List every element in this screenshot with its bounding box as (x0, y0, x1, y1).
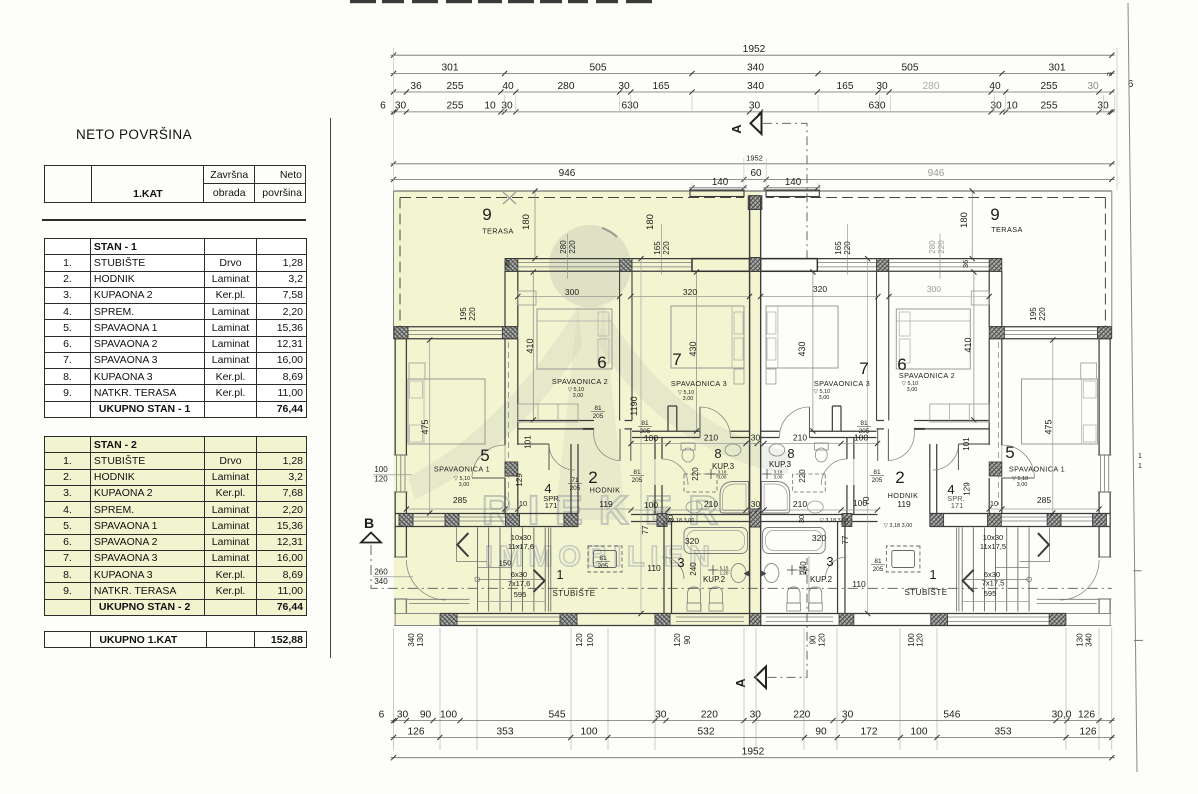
svg-text:205: 205 (859, 428, 870, 435)
svg-text:126: 126 (408, 726, 425, 737)
svg-text:30: 30 (876, 81, 888, 92)
svg-text:3,00: 3,00 (459, 482, 470, 488)
svg-text:475: 475 (420, 419, 430, 434)
parapet bar 140 (690, 190, 744, 197)
svg-text:90: 90 (815, 726, 827, 737)
svg-text:165: 165 (834, 241, 843, 255)
dashed beam line wall A (508, 342, 510, 505)
svg-text:60: 60 (750, 168, 762, 179)
KUP3 washing machine (686, 501, 702, 513)
pier center top (748, 196, 760, 210)
dim line bath bottom left (631, 509, 757, 511)
vertical dim 1190 corridor (640, 259, 642, 614)
KUP2 shower screen line (700, 556, 702, 612)
svg-text:120: 120 (575, 633, 584, 647)
dim line 475 right (1052, 340, 1054, 513)
svg-text:3: 3 (826, 554, 833, 569)
section marker A top (751, 113, 762, 135)
vertical divider line right of tables (330, 118, 331, 658)
svg-text:165: 165 (837, 81, 854, 92)
svg-text:320: 320 (683, 287, 697, 297)
dim line 320 room7 (631, 296, 750, 298)
svg-text:10x30: 10x30 (983, 533, 1003, 542)
svg-text:320: 320 (685, 536, 699, 546)
svg-text:205: 205 (593, 413, 604, 420)
svg-text:172: 172 (861, 726, 878, 737)
left exterior wall (double line, gaps for window+door) (394, 339, 396, 455)
svg-text:946: 946 (928, 168, 945, 179)
pier terrace bottom right (502, 327, 517, 339)
svg-text:30: 30 (797, 515, 806, 523)
svg-text:171: 171 (951, 501, 964, 510)
svg-text:6x30: 6x30 (511, 570, 527, 579)
svg-text:340: 340 (407, 633, 416, 647)
cropped marks at very top edge (350, 0, 376, 3)
svg-text:B: B (364, 515, 374, 531)
svg-text:120: 120 (916, 633, 925, 647)
svg-text:101: 101 (524, 435, 533, 449)
svg-text:353: 353 (497, 726, 514, 737)
svg-text:120: 120 (818, 633, 827, 647)
section marker A bottom (755, 667, 766, 689)
svg-text:▽ 3,18 3,00: ▽ 3,18 3,00 (820, 518, 849, 524)
svg-text:7x17,6: 7x17,6 (508, 579, 531, 588)
svg-text:165: 165 (653, 241, 662, 255)
dimension row 36..255 (391, 91, 1115, 93)
svg-text:30,0: 30,0 (1052, 709, 1072, 720)
svg-text:7x17,5: 7x17,5 (982, 579, 1005, 588)
svg-text:255: 255 (447, 101, 464, 112)
stair-top wall band (395, 513, 578, 515)
svg-text:340: 340 (1085, 633, 1094, 647)
svg-text:100: 100 (644, 500, 658, 510)
svg-text:205: 205 (598, 563, 609, 570)
svg-text:119: 119 (599, 499, 613, 509)
svg-text:▽ 3,18 3,00: ▽ 3,18 3,00 (884, 523, 913, 529)
svg-text:▽ 3,18 3,00: ▽ 3,18 3,00 (666, 518, 695, 524)
pier bath bottom (657, 514, 667, 527)
rooms 6/7 divider wall (619, 271, 621, 420)
KUP3 shower dashed box (684, 474, 717, 492)
svg-text:30: 30 (1097, 101, 1109, 112)
frame line right (1128, 3, 1137, 772)
svg-text:100: 100 (440, 709, 457, 720)
svg-text:545: 545 (549, 709, 566, 720)
svg-text:255: 255 (1041, 101, 1058, 112)
svg-text:165: 165 (653, 81, 670, 92)
svg-text:3: 3 (1107, 72, 1114, 76)
svg-text:1: 1 (1138, 453, 1142, 460)
dimension row total 1952 top (391, 54, 1115, 56)
dimension row 301/505/340/505/301 (391, 73, 1115, 75)
svg-text:220: 220 (568, 240, 577, 254)
svg-text:205: 205 (640, 428, 651, 435)
svg-text:946: 946 (559, 168, 576, 179)
svg-text:340: 340 (374, 577, 388, 586)
section line B dash-dot (371, 545, 1112, 588)
svg-text:595: 595 (984, 589, 997, 598)
extension lines from plan to bottom dims (393, 628, 395, 750)
dim line 300 room6 right (889, 296, 989, 298)
SPR top wall + door (518, 443, 549, 445)
svg-text:180: 180 (645, 214, 656, 230)
svg-text:6: 6 (379, 709, 385, 720)
svg-text:129: 129 (515, 473, 524, 487)
dimension row small 1952 (second group) (391, 163, 1115, 165)
KUP2 left wall (663, 522, 665, 614)
svg-text:8: 8 (787, 446, 794, 461)
svg-text:10: 10 (519, 499, 527, 508)
svg-text:TERASA: TERASA (482, 227, 514, 236)
pier rooms 6/7 divider top (620, 259, 632, 272)
svg-text:STUBIŠTE: STUBIŠTE (904, 588, 947, 597)
svg-text:100: 100 (581, 726, 598, 737)
svg-text:KUP.3: KUP.3 (769, 460, 792, 469)
table STAN-1 (44, 238, 307, 418)
svg-text:126: 126 (1078, 709, 1095, 720)
pier stairtop 2 (445, 514, 459, 527)
svg-text:3,00: 3,00 (819, 395, 830, 401)
svg-text:STUBIŠTE: STUBIŠTE (552, 589, 595, 598)
svg-text:101: 101 (962, 437, 971, 451)
svg-text:1: 1 (1138, 463, 1142, 470)
svg-text:11x17,6: 11x17,6 (508, 542, 534, 551)
svg-text:595: 595 (514, 590, 527, 599)
nightstand room5 (409, 363, 425, 379)
svg-text:A: A (729, 124, 744, 134)
pier stairtop 4 (564, 514, 578, 527)
pier terrace bottom left (394, 327, 408, 339)
svg-text:3,00: 3,00 (1017, 482, 1028, 488)
svg-text:130: 130 (416, 633, 425, 647)
pier wall A top (505, 259, 518, 272)
pier center mid (750, 509, 761, 527)
svg-text:240: 240 (689, 562, 698, 576)
vertical dim 180 terrace (534, 191, 536, 259)
svg-text:1: 1 (929, 567, 936, 582)
bed room 6 (537, 309, 612, 369)
dim line 320 room7 right (761, 296, 878, 298)
entrance door leaf and arc (406, 560, 446, 600)
svg-text:SPAVAONICA 1: SPAVAONICA 1 (434, 465, 490, 474)
svg-text:30: 30 (1087, 81, 1099, 92)
svg-text:30: 30 (750, 709, 762, 720)
svg-text:40: 40 (989, 81, 1001, 92)
KUP2 bidet (709, 603, 723, 611)
svg-text:3,00: 3,00 (774, 475, 783, 480)
svg-text:180: 180 (959, 212, 970, 228)
stair landing lines (457, 560, 487, 562)
svg-text:430: 430 (797, 341, 807, 356)
svg-text:300: 300 (927, 284, 941, 294)
svg-text:220: 220 (793, 709, 810, 720)
bath bottom wall (631, 514, 761, 516)
pier bottom 2 (560, 614, 577, 626)
bottom outer wall (440, 613, 755, 615)
svg-text:77: 77 (641, 525, 650, 534)
KUP3 toilet (681, 443, 695, 450)
svg-text:320: 320 (813, 284, 827, 294)
window band room 7 top (631, 262, 692, 264)
svg-text:1190: 1190 (629, 396, 639, 415)
svg-text:320: 320 (812, 533, 826, 543)
svg-text:301: 301 (1049, 62, 1066, 73)
table UKUPNO 1.KAT (44, 631, 307, 648)
svg-text:30: 30 (751, 499, 761, 509)
stairs right boundary (548, 528, 550, 612)
svg-text:10x30: 10x30 (511, 533, 531, 542)
wall A terrace-side segment (504, 271, 506, 327)
x mark on top edge (503, 192, 516, 204)
svg-text:77: 77 (841, 535, 850, 544)
svg-text:210: 210 (793, 433, 807, 443)
svg-text:9: 9 (482, 205, 491, 224)
svg-text:630: 630 (869, 101, 886, 112)
svg-text:2: 2 (895, 468, 904, 487)
svg-text:HODNIK: HODNIK (590, 486, 621, 495)
svg-text:220: 220 (468, 307, 477, 321)
svg-text:KUP.2: KUP.2 (810, 575, 833, 584)
pier center wall below terrace strip (750, 258, 761, 272)
yellow fill apartment STAN-2 (left unit) (394, 191, 761, 626)
svg-text:220: 220 (1038, 307, 1047, 321)
KUP2 sink oval (731, 564, 746, 583)
door room 6 leaf+arc (619, 429, 621, 461)
KUP3 sink (725, 444, 741, 456)
svg-text:205: 205 (570, 485, 581, 492)
stairs left edge (456, 528, 458, 563)
KUP2 bathtub (684, 528, 748, 554)
dim line 285 room5 right (1002, 508, 1099, 510)
room 6 bottom wall (518, 420, 594, 422)
svg-text:110: 110 (647, 563, 661, 573)
svg-text:SPAVAONICA 3: SPAVAONICA 3 (671, 379, 727, 388)
outlined wall segment near center top (692, 259, 750, 272)
svg-text:1952: 1952 (743, 44, 766, 55)
window axis line room6 (567, 234, 569, 279)
svg-text:6: 6 (380, 101, 386, 112)
nightstand room 7 (734, 369, 744, 384)
pier bottom 3 (655, 614, 670, 626)
svg-text:SPAVAONICA 1: SPAVAONICA 1 (1009, 465, 1065, 474)
svg-text:7: 7 (672, 350, 681, 369)
outer top line (394, 190, 756, 192)
title NETO POVRSINA (76, 127, 192, 142)
svg-text:1952: 1952 (742, 747, 765, 758)
svg-text:220: 220 (798, 469, 807, 483)
skylight dashed box over stairs (588, 546, 622, 572)
pier wall A mid (505, 462, 518, 476)
terrace bottom wall lines (394, 326, 518, 328)
svg-text:210: 210 (704, 499, 718, 509)
svg-text:2: 2 (588, 468, 597, 487)
svg-text:120: 120 (673, 633, 682, 647)
svg-text:285: 285 (453, 495, 467, 505)
svg-text:119: 119 (897, 499, 911, 509)
stair arrow chevron down-flight (534, 570, 545, 592)
svg-text:1: 1 (556, 567, 563, 582)
dim line 475 left (429, 340, 431, 513)
bottom dimension row A (391, 720, 1115, 722)
svg-text:110: 110 (852, 579, 866, 589)
dim line 285 room5 (406, 508, 505, 510)
dimension row 140/140 (689, 187, 747, 189)
svg-text:30: 30 (751, 433, 761, 443)
svg-text:100: 100 (911, 726, 928, 737)
svg-text:410: 410 (525, 338, 535, 353)
svg-text:220: 220 (662, 241, 671, 255)
svg-text:SPAVAONICA 3: SPAVAONICA 3 (814, 379, 870, 388)
svg-text:3: 3 (677, 555, 684, 570)
svg-text:129: 129 (963, 482, 972, 496)
svg-text:71: 71 (571, 477, 579, 484)
dimension row 6/30/255/10/30/630 (391, 111, 1115, 113)
pier bottom 4 (750, 614, 761, 626)
corridor right wall / KUP3 left (654, 438, 656, 460)
svg-text:6: 6 (597, 353, 606, 372)
svg-text:301: 301 (442, 62, 459, 73)
terrace dashed boundary left (399, 198, 401, 339)
terrace dashed boundary top (400, 197, 744, 199)
svg-text:8: 8 (714, 446, 721, 461)
svg-text:410: 410 (963, 337, 973, 352)
svg-text:195: 195 (1029, 307, 1038, 321)
svg-text:280: 280 (923, 81, 940, 92)
KUP2 toilet (687, 603, 701, 611)
svg-text:81: 81 (860, 420, 868, 427)
svg-text:81: 81 (874, 558, 882, 565)
svg-text:3,00: 3,00 (718, 475, 727, 480)
dimension row 946/60/946 (391, 178, 1115, 180)
svg-text:126: 126 (1080, 726, 1097, 737)
svg-text:KUP.2: KUP.2 (703, 575, 726, 584)
svg-text:SPAVAONICA 2: SPAVAONICA 2 (552, 377, 608, 386)
stair arrow chevron up-flight (457, 533, 468, 557)
watermark lighthouse circle (549, 225, 631, 307)
vertical dim 410 room6 (532, 272, 534, 420)
svg-text:81: 81 (873, 469, 881, 476)
svg-text:205: 205 (632, 477, 643, 484)
svg-text:10: 10 (484, 101, 496, 112)
svg-text:3,00: 3,00 (573, 393, 584, 399)
fold tick right margin lower (1134, 639, 1143, 641)
svg-text:120: 120 (374, 475, 388, 484)
svg-text:81: 81 (599, 555, 607, 562)
svg-text:195: 195 (459, 307, 468, 321)
thick divider line (42, 219, 306, 221)
svg-text:255: 255 (1041, 81, 1058, 92)
svg-text:220: 220 (843, 241, 852, 255)
svg-text:36: 36 (503, 260, 512, 268)
svg-text:220: 220 (701, 709, 718, 720)
svg-text:210: 210 (793, 499, 807, 509)
svg-text:10: 10 (1006, 101, 1018, 112)
svg-text:A: A (733, 678, 748, 688)
dim line bath top left (631, 443, 757, 445)
outer left edge line (393, 191, 395, 339)
svg-text:30: 30 (618, 81, 630, 92)
svg-text:430: 430 (688, 341, 698, 356)
watermark wings and tower (408, 306, 582, 500)
L-wall in room 7 (667, 406, 669, 431)
pier stairtop 3 (506, 514, 520, 527)
svg-text:5: 5 (1005, 443, 1014, 462)
dim line hodnik 119 (578, 508, 631, 510)
svg-text:30: 30 (395, 101, 407, 112)
svg-text:36: 36 (961, 260, 970, 268)
wardrobe room 6 top (518, 291, 536, 305)
section line A bottom dash-dot (768, 558, 808, 677)
svg-text:140: 140 (785, 177, 802, 188)
svg-text:220: 220 (691, 467, 700, 481)
svg-text:81: 81 (633, 469, 641, 476)
svg-text:171: 171 (545, 501, 558, 510)
porch edge bottom-left (394, 613, 440, 615)
door KUP2 arc (662, 557, 684, 579)
svg-text:3,00: 3,00 (907, 387, 918, 393)
window in left wall of room 5 (394, 454, 408, 456)
bed room 5 (408, 379, 485, 444)
svg-text:90: 90 (683, 635, 692, 644)
right apartment (mirrored copy of left geometry) (750, 188, 1112, 625)
svg-text:130: 130 (1076, 633, 1085, 647)
svg-text:70: 70 (862, 496, 871, 505)
svg-text:SPAVAONICA 2: SPAVAONICA 2 (899, 371, 955, 380)
fold tick right margin upper (1134, 570, 1142, 572)
wardrobe room 6 bottom (518, 404, 578, 422)
svg-text:30: 30 (842, 709, 854, 720)
svg-text:5: 5 (480, 446, 489, 465)
dim line 300 room6 (518, 296, 620, 298)
svg-text:300: 300 (565, 287, 579, 297)
svg-text:340: 340 (747, 62, 764, 73)
svg-text:1,20: 1,20 (799, 571, 808, 576)
svg-text:90: 90 (809, 635, 818, 644)
svg-text:260: 260 (374, 568, 388, 577)
svg-text:150: 150 (499, 559, 512, 568)
svg-text:210: 210 (704, 433, 718, 443)
svg-text:220: 220 (937, 240, 946, 254)
svg-text:100: 100 (586, 633, 595, 647)
svg-text:280: 280 (559, 240, 568, 254)
svg-text:630: 630 (622, 101, 639, 112)
svg-text:505: 505 (590, 62, 607, 73)
bottom dimension row total 1952 (391, 757, 1115, 759)
section line A top dash-dot (763, 123, 807, 258)
svg-text:40: 40 (502, 81, 514, 92)
svg-text:340: 340 (747, 81, 764, 92)
svg-text:1952: 1952 (746, 154, 763, 163)
vertical dim 430 room7 (696, 272, 698, 431)
svg-text:280: 280 (558, 81, 575, 92)
svg-text:255: 255 (447, 81, 464, 92)
svg-text:30: 30 (655, 709, 667, 720)
bed room 7 (671, 306, 744, 368)
svg-text:1,20: 1,20 (720, 571, 729, 576)
svg-text:205: 205 (873, 566, 884, 573)
svg-text:100: 100 (374, 465, 388, 474)
svg-text:30: 30 (749, 101, 761, 112)
extension lines above plan (393, 48, 395, 190)
window axis line room7 (660, 224, 662, 275)
door room5 from corridor (504, 445, 506, 478)
KUP3 corner tub (720, 482, 749, 514)
door room 7 leaf+arc (699, 407, 701, 438)
svg-text:9: 9 (990, 205, 999, 224)
svg-text:81: 81 (594, 405, 602, 412)
svg-text:TERASA: TERASA (991, 225, 1023, 234)
room 7 bottom wall (632, 430, 700, 432)
